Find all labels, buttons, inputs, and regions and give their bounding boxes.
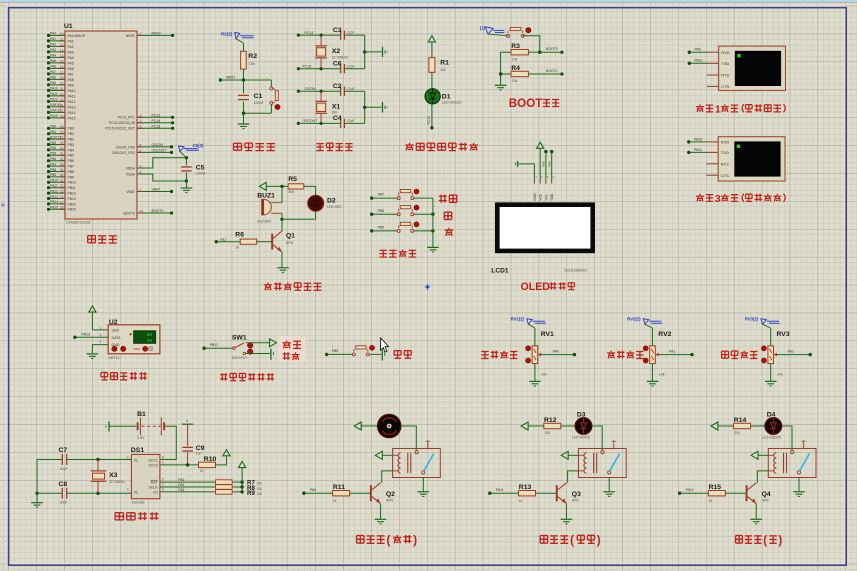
svg-text:19: 19 — [60, 130, 64, 134]
svg-text:7: 7 — [162, 483, 164, 487]
svg-text:RV1: RV1 — [541, 331, 554, 338]
svg-text:PB8: PB8 — [542, 161, 546, 167]
svg-text:PB11: PB11 — [68, 186, 76, 190]
svg-text:R14: R14 — [734, 417, 747, 424]
svg-text:R10: R10 — [204, 456, 217, 463]
svg-text:20: 20 — [60, 136, 64, 140]
svg-text:TXD: TXD — [721, 61, 729, 66]
svg-text:R2(2): R2(2) — [221, 31, 233, 36]
svg-text:PB8: PB8 — [50, 168, 56, 172]
svg-text:12pF: 12pF — [347, 31, 355, 35]
svg-text:PB15: PB15 — [50, 206, 58, 210]
svg-text:41: 41 — [60, 152, 64, 156]
svg-text:PA15: PA15 — [50, 114, 58, 118]
svg-text:PA12: PA12 — [68, 100, 76, 104]
svg-text:PB5: PB5 — [50, 152, 56, 156]
svg-text:PA12: PA12 — [686, 488, 694, 492]
svg-text:10k: 10k — [249, 62, 255, 66]
svg-text:RV1(2): RV1(2) — [511, 316, 525, 321]
svg-text:NRST: NRST — [152, 32, 162, 36]
svg-text:32.768kHz: 32.768kHz — [332, 55, 349, 59]
svg-text:PA14: PA14 — [68, 111, 76, 115]
svg-text:C8: C8 — [59, 481, 68, 488]
svg-text:10k: 10k — [512, 57, 518, 61]
svg-text:R12: R12 — [544, 417, 557, 424]
svg-text:X2: X2 — [332, 48, 341, 55]
svg-text:C7: C7 — [59, 447, 68, 454]
svg-text:21: 21 — [60, 179, 64, 183]
svg-text:LED-WHITE: LED-WHITE — [572, 435, 591, 439]
svg-text:45: 45 — [60, 168, 64, 172]
svg-text:PA1: PA1 — [669, 349, 675, 353]
svg-text:PB0: PB0 — [50, 125, 56, 129]
svg-text:C4: C4 — [333, 115, 342, 122]
svg-text:PB12: PB12 — [50, 189, 58, 193]
svg-text:PB10: PB10 — [68, 181, 76, 185]
svg-text:LCD1: LCD1 — [491, 267, 509, 274]
svg-text:PA1: PA1 — [50, 37, 56, 41]
svg-text:12pF: 12pF — [347, 87, 355, 91]
svg-text:BOOT0: BOOT0 — [152, 209, 164, 213]
svg-text:39: 39 — [60, 141, 64, 145]
svg-text:D3: D3 — [577, 412, 586, 419]
svg-text:C6: C6 — [333, 61, 342, 68]
svg-text:6: 6 — [140, 149, 142, 153]
svg-text:PA4: PA4 — [50, 54, 56, 58]
svg-text:R13: R13 — [519, 484, 532, 491]
svg-text:80: 80 — [147, 333, 153, 338]
svg-text:30: 30 — [60, 81, 64, 85]
svg-text:PB4: PB4 — [50, 146, 56, 150]
svg-text:): ) — [597, 535, 601, 547]
svg-text:VDDA: VDDA — [126, 166, 136, 170]
svg-text:PB7: PB7 — [50, 162, 56, 166]
svg-text:1k: 1k — [235, 245, 239, 249]
svg-text:LED-GREEN: LED-GREEN — [762, 435, 782, 439]
svg-text:PA15: PA15 — [68, 116, 76, 120]
svg-text:RV2: RV2 — [658, 331, 671, 338]
svg-text:8: 8 — [162, 455, 164, 459]
svg-text:RTS: RTS — [721, 161, 729, 166]
svg-text:SW-SPDT: SW-SPDT — [232, 356, 248, 360]
svg-text:SCLK: SCLK — [149, 486, 159, 490]
svg-text:PC13: PC13 — [427, 116, 431, 124]
svg-text:PB9: PB9 — [50, 173, 56, 177]
svg-text:PB9: PB9 — [378, 226, 385, 230]
svg-text:PA7: PA7 — [50, 70, 56, 74]
svg-text:3: 3 — [140, 119, 142, 123]
svg-text:SDA: SDA — [550, 193, 554, 201]
svg-text:LED-GREEN: LED-GREEN — [442, 101, 462, 105]
svg-text:PA11: PA11 — [68, 94, 76, 98]
svg-text:C1: C1 — [254, 93, 263, 100]
svg-text:14: 14 — [60, 54, 64, 58]
svg-text:32: 32 — [60, 92, 64, 96]
svg-text:3.6V: 3.6V — [137, 436, 145, 440]
svg-text:PB7: PB7 — [68, 165, 75, 169]
svg-text:DATA: DATA — [112, 336, 122, 340]
svg-text:NPN: NPN — [286, 241, 294, 245]
svg-text:300: 300 — [288, 190, 294, 194]
svg-text:U1: U1 — [64, 23, 73, 30]
svg-text:33: 33 — [60, 98, 64, 102]
svg-text:PB12: PB12 — [210, 343, 218, 347]
svg-text:CTS: CTS — [721, 84, 729, 89]
svg-text:PB5: PB5 — [68, 154, 75, 158]
svg-text:R4: R4 — [511, 65, 520, 72]
svg-text:VCC2: VCC2 — [148, 464, 157, 468]
svg-text:PB13: PB13 — [50, 195, 58, 199]
svg-text:U2: U2 — [109, 319, 118, 326]
svg-text:PB1: PB1 — [68, 132, 75, 136]
svg-text:OSCIN: OSCIN — [152, 143, 164, 147]
svg-text:PA6: PA6 — [50, 65, 56, 69]
svg-text:RXD: RXD — [721, 50, 730, 55]
svg-text:1: 1 — [162, 461, 164, 465]
svg-text:3: 3 — [715, 194, 721, 205]
svg-text:16: 16 — [60, 65, 64, 69]
svg-text:PA7: PA7 — [68, 72, 74, 76]
svg-text:2: 2 — [127, 455, 129, 459]
svg-text:32.768kHz: 32.768kHz — [109, 480, 125, 484]
svg-text:PA5: PA5 — [178, 488, 184, 492]
svg-text:PA12: PA12 — [50, 98, 58, 102]
svg-text:37: 37 — [60, 109, 64, 113]
svg-text:42: 42 — [60, 157, 64, 161]
svg-text:BOOT: BOOT — [509, 97, 543, 110]
svg-text:PA5: PA5 — [50, 59, 56, 63]
svg-text:NPN: NPN — [386, 499, 394, 503]
svg-text:RV2(2): RV2(2) — [627, 316, 641, 321]
svg-text:PB13: PB13 — [68, 197, 76, 201]
svg-text:PB11: PB11 — [694, 148, 702, 152]
svg-text:TXD: TXD — [721, 150, 729, 155]
svg-text:R6: R6 — [235, 231, 244, 238]
svg-text:12pF: 12pF — [347, 119, 355, 123]
svg-text:PA8: PA8 — [310, 488, 316, 492]
svg-text:8M: 8M — [332, 111, 337, 115]
svg-text:GND: GND — [533, 193, 537, 201]
svg-text:38: 38 — [60, 114, 64, 118]
svg-text:R9: R9 — [247, 490, 255, 497]
svg-text:R2: R2 — [248, 53, 257, 60]
svg-text:1: 1 — [140, 188, 142, 192]
svg-text:5: 5 — [140, 143, 142, 147]
svg-text:30pF: 30pF — [60, 467, 68, 471]
svg-text:BOOT1: BOOT1 — [546, 69, 558, 73]
svg-text:DHT11: DHT11 — [108, 356, 119, 360]
svg-text:Q1: Q1 — [286, 233, 295, 240]
svg-text:Q2: Q2 — [386, 491, 395, 498]
svg-text:PA2: PA2 — [50, 43, 56, 47]
svg-text:R11: R11 — [333, 484, 345, 491]
svg-text:D4: D4 — [767, 412, 776, 419]
svg-text:NPN: NPN — [572, 499, 580, 503]
svg-text:PA2: PA2 — [68, 45, 74, 49]
svg-text:PC15: PC15 — [152, 125, 161, 129]
svg-text:PA2: PA2 — [788, 349, 794, 353]
svg-text:CTS: CTS — [721, 173, 729, 178]
svg-text:4: 4 — [100, 340, 102, 344]
svg-text:PA0-WKUP: PA0-WKUP — [68, 34, 86, 38]
svg-text:PA10: PA10 — [695, 59, 703, 63]
svg-text:PC14: PC14 — [152, 119, 161, 123]
svg-text:27: 27 — [60, 200, 64, 204]
svg-text:PB14: PB14 — [68, 202, 76, 206]
svg-text:VCC1: VCC1 — [148, 458, 157, 462]
svg-text:7: 7 — [140, 32, 142, 36]
svg-text:R5: R5 — [288, 176, 297, 183]
svg-text:PB9: PB9 — [547, 161, 551, 167]
svg-text:PA0: PA0 — [553, 349, 559, 353]
svg-text:X1: X1 — [332, 103, 341, 110]
svg-text:PC15: PC15 — [303, 65, 312, 69]
svg-text:100nF: 100nF — [196, 172, 207, 176]
svg-text:RXD: RXD — [721, 140, 730, 145]
svg-text:RST: RST — [151, 481, 159, 485]
svg-text:(1): (1) — [480, 25, 486, 30]
svg-text:22: 22 — [60, 184, 64, 188]
svg-text:): ) — [778, 535, 782, 547]
svg-text:44: 44 — [140, 209, 144, 213]
svg-text:C5(2): C5(2) — [193, 143, 205, 148]
svg-text:OSCIN: OSCIN — [305, 87, 317, 91]
svg-text:PA4: PA4 — [68, 56, 74, 60]
svg-text:PA8: PA8 — [50, 76, 56, 80]
svg-text:12: 12 — [60, 43, 64, 47]
svg-text:BUZ1: BUZ1 — [257, 193, 275, 200]
svg-text:DS1302: DS1302 — [132, 500, 145, 504]
svg-text:NRST: NRST — [226, 76, 236, 80]
svg-text:PA8: PA8 — [68, 78, 74, 82]
svg-text:OSCOUT: OSCOUT — [303, 119, 319, 123]
svg-text:300: 300 — [734, 431, 740, 435]
svg-text:PB2: PB2 — [68, 138, 75, 142]
svg-text:31: 31 — [60, 87, 64, 91]
svg-text:Q4: Q4 — [762, 491, 771, 498]
svg-text:PB9: PB9 — [68, 175, 75, 179]
svg-text:PA10: PA10 — [50, 87, 58, 91]
svg-text:OLED12864OC: OLED12864OC — [564, 268, 588, 272]
svg-text:PB8: PB8 — [378, 209, 385, 213]
svg-text:29: 29 — [147, 339, 153, 344]
svg-text:1k: 1k — [519, 499, 523, 503]
svg-text:30pF: 30pF — [60, 501, 68, 505]
svg-text:29: 29 — [60, 76, 64, 80]
svg-text:PB3: PB3 — [50, 141, 56, 145]
svg-text:PB13: PB13 — [82, 332, 90, 336]
svg-text:PB5: PB5 — [332, 349, 339, 353]
svg-text:X2: X2 — [134, 491, 138, 495]
svg-text:PC13_RTC: PC13_RTC — [118, 116, 136, 120]
svg-text:PA13: PA13 — [68, 105, 76, 109]
svg-text:(: ( — [570, 535, 574, 547]
svg-text:46: 46 — [60, 173, 64, 177]
svg-text:10k: 10k — [512, 79, 518, 83]
svg-text:RTS: RTS — [721, 73, 729, 78]
svg-text:D2: D2 — [327, 197, 336, 204]
svg-text:10k: 10k — [257, 482, 263, 486]
svg-text:(: ( — [763, 535, 767, 547]
svg-text:26: 26 — [60, 195, 64, 199]
svg-text:C2: C2 — [333, 83, 342, 90]
svg-text:PB8: PB8 — [68, 170, 75, 174]
svg-text:DS1: DS1 — [131, 447, 144, 454]
svg-text:1k: 1k — [333, 499, 337, 503]
svg-text:300: 300 — [440, 68, 446, 72]
svg-text:5: 5 — [162, 478, 164, 482]
svg-text:PA1: PA1 — [68, 39, 74, 43]
svg-text:PC13: PC13 — [152, 114, 161, 118]
svg-text:10k: 10k — [659, 372, 665, 376]
svg-text:PC14: PC14 — [305, 31, 314, 35]
svg-text:PA4: PA4 — [178, 483, 184, 487]
svg-text:OSCOUT: OSCOUT — [152, 149, 168, 153]
svg-text:17: 17 — [60, 70, 64, 74]
svg-text:2: 2 — [100, 333, 102, 337]
svg-text:10k: 10k — [257, 487, 263, 491]
svg-text:PA9: PA9 — [695, 48, 701, 52]
svg-text:VBAT: VBAT — [152, 188, 162, 192]
svg-text:PB6: PB6 — [68, 159, 75, 163]
svg-text:300: 300 — [545, 431, 551, 435]
svg-text:BUZZER: BUZZER — [257, 219, 271, 223]
svg-text:4: 4 — [140, 125, 142, 129]
svg-text:34: 34 — [60, 103, 64, 107]
svg-text:2: 2 — [140, 114, 142, 118]
svg-text:NRST: NRST — [126, 34, 135, 38]
svg-text:OLED: OLED — [521, 281, 551, 293]
svg-text:12pF: 12pF — [347, 64, 355, 68]
svg-text:VSSA: VSSA — [126, 172, 136, 176]
svg-text:1uF: 1uF — [196, 451, 202, 455]
svg-text:VDD: VDD — [112, 328, 120, 332]
svg-text:6: 6 — [162, 487, 164, 491]
svg-text:R1: R1 — [440, 60, 449, 67]
svg-text:STM32F103C6: STM32F103C6 — [66, 221, 90, 225]
svg-text:PC14-OSC32_IN: PC14-OSC32_IN — [109, 121, 136, 125]
svg-text:1k: 1k — [709, 499, 713, 503]
svg-text:BOOT0: BOOT0 — [546, 47, 558, 51]
svg-text:PB0: PB0 — [68, 127, 75, 131]
svg-text:PA3: PA3 — [68, 50, 74, 54]
svg-text:10k: 10k — [541, 372, 547, 376]
svg-text:15: 15 — [60, 59, 64, 63]
svg-text:PA3: PA3 — [50, 48, 56, 52]
svg-text:PA0: PA0 — [50, 32, 56, 36]
svg-text:PA11: PA11 — [50, 92, 58, 96]
svg-text:OSCIN_PD0: OSCIN_PD0 — [116, 145, 135, 149]
svg-text:13: 13 — [60, 48, 64, 52]
svg-text:PA6: PA6 — [68, 67, 74, 71]
svg-text:25: 25 — [60, 190, 64, 194]
svg-text:18: 18 — [60, 125, 64, 129]
svg-text:28: 28 — [60, 206, 64, 210]
svg-text:PB10: PB10 — [694, 137, 702, 141]
svg-text:PB12: PB12 — [68, 192, 76, 196]
svg-text:100nF: 100nF — [254, 101, 265, 105]
svg-text:X1: X1 — [134, 458, 138, 462]
svg-text:): ) — [413, 535, 417, 547]
svg-text:RV3(2): RV3(2) — [745, 316, 759, 321]
svg-text:LED-RED: LED-RED — [327, 205, 342, 209]
svg-text:PA9: PA9 — [68, 83, 74, 87]
svg-text:Q3: Q3 — [572, 491, 581, 498]
svg-text:SW1: SW1 — [232, 334, 247, 341]
svg-text:PC15-OSC32_OUT: PC15-OSC32_OUT — [105, 127, 135, 131]
svg-text:R15: R15 — [709, 484, 722, 491]
svg-text:3: 3 — [127, 488, 129, 492]
svg-text:PB3: PB3 — [68, 143, 75, 147]
svg-text:PA10: PA10 — [68, 89, 76, 93]
svg-text:C3: C3 — [333, 27, 342, 34]
svg-text:X3: X3 — [109, 472, 118, 479]
svg-text:(: ( — [387, 535, 391, 547]
svg-text:10k: 10k — [257, 492, 263, 496]
svg-text:B1: B1 — [137, 411, 146, 418]
svg-text:1k: 1k — [200, 469, 204, 473]
svg-text:NPN: NPN — [762, 499, 770, 503]
svg-text:R3: R3 — [511, 43, 520, 50]
svg-text:D1: D1 — [442, 94, 451, 101]
svg-text:I/O: I/O — [153, 491, 158, 495]
svg-text:PA11: PA11 — [496, 488, 504, 492]
svg-text:RV3: RV3 — [777, 331, 790, 338]
svg-text:PB15: PB15 — [68, 208, 76, 212]
svg-text:VBAT: VBAT — [126, 190, 135, 194]
svg-text:10k: 10k — [777, 372, 783, 376]
svg-text:10: 10 — [60, 32, 64, 36]
svg-text:PB14: PB14 — [50, 200, 58, 204]
svg-text:%RH: %RH — [133, 347, 140, 351]
svg-text:OSCOUT_PD1: OSCOUT_PD1 — [112, 151, 135, 155]
svg-text:PB6: PB6 — [50, 157, 56, 161]
svg-text:PB4: PB4 — [68, 148, 75, 152]
svg-text:PA9: PA9 — [50, 81, 56, 85]
svg-text:BOOT0: BOOT0 — [124, 211, 136, 215]
svg-text:PB11: PB11 — [50, 184, 58, 188]
svg-text:VCC: VCC — [539, 193, 543, 201]
svg-text:43: 43 — [60, 163, 64, 167]
svg-text:SCL: SCL — [544, 194, 548, 201]
svg-text:PB10: PB10 — [50, 179, 58, 183]
svg-text:40: 40 — [60, 146, 64, 150]
svg-text:PA5: PA5 — [68, 61, 74, 65]
svg-text:11: 11 — [60, 37, 64, 41]
svg-text:1: 1 — [100, 325, 102, 329]
svg-text:PA6: PA6 — [178, 478, 184, 482]
svg-text:PB7: PB7 — [378, 193, 385, 197]
svg-text:C5: C5 — [196, 165, 205, 172]
svg-text:1: 1 — [715, 104, 721, 115]
svg-text:PB1: PB1 — [50, 130, 56, 134]
